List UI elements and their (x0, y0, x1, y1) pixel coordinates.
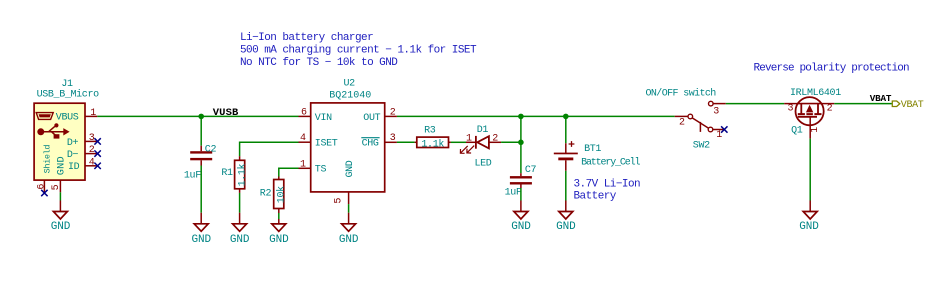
J1 pin 5 GND (51, 156, 67, 192)
LED D1 (460, 125, 501, 169)
wire R1 bottom to ground (239, 193, 241, 213)
svg-text:Battery_Cell: Battery_Cell (581, 156, 640, 168)
svg-text:LED: LED (475, 158, 492, 169)
Q1 pin 1 gate (809, 117, 811, 139)
D1 emission arrows (460, 146, 467, 153)
ground symbol under Q1 (799, 201, 819, 233)
J1 pin 4 ID (68, 157, 97, 173)
svg-text:2: 2 (679, 118, 685, 129)
svg-text:GND: GND (339, 234, 359, 246)
wire VBUS rail: J1 pin1 to U2 VIN (97, 115, 298, 117)
no-connect X on D+ (94, 138, 100, 144)
junction at LED/C7 (518, 140, 524, 146)
resistor R2 (260, 177, 288, 224)
svg-text:TS: TS (315, 165, 327, 176)
svg-text:3: 3 (89, 133, 95, 144)
svg-text:1uF: 1uF (505, 188, 522, 199)
svg-text:IRLML6401: IRLML6401 (790, 88, 841, 99)
svg-text:D+: D+ (67, 138, 79, 149)
svg-text:No NTC for TS − 10k to GND: No NTC for TS − 10k to GND (240, 57, 398, 69)
svg-text:GND: GND (345, 160, 356, 177)
svg-text:2: 2 (827, 103, 833, 114)
connector J1 USB_B_Micro body (34, 79, 99, 180)
U2 pin 3 CHG (361, 133, 397, 150)
svg-text:Battery: Battery (574, 190, 617, 202)
wire J1 pin5 to ground (59, 192, 61, 200)
svg-text:GND: GND (192, 234, 212, 246)
wire Q1 gate to ground (809, 139, 811, 201)
svg-text:BT1: BT1 (584, 144, 601, 155)
wire C2 top (200, 116, 202, 145)
wire U2 pin5 to ground (348, 204, 350, 213)
ground symbol under C2 (192, 213, 212, 246)
svg-text:Q1: Q1 (791, 125, 803, 136)
svg-text:VBUS: VBUS (56, 113, 79, 124)
wire C7 bottom to ground (520, 188, 522, 201)
svg-text:GND: GND (556, 221, 576, 233)
wire junction drop to C7 (520, 116, 522, 173)
J1 usb receptacle icon (36, 113, 53, 120)
svg-text:5: 5 (333, 198, 344, 204)
svg-text:SW2: SW2 (693, 141, 710, 152)
svg-text:BQ21040: BQ21040 (329, 90, 371, 101)
svg-text:3: 3 (788, 103, 794, 114)
svg-text:ID: ID (68, 162, 80, 173)
U2 pin 1 TS (299, 159, 327, 175)
junction at C2 (198, 114, 204, 120)
J1 pin 2 D- (67, 145, 97, 161)
svg-text:1.1k: 1.1k (421, 138, 444, 150)
switch SW2 (675, 101, 726, 151)
wire BT1 bottom to ground (565, 171, 567, 201)
svg-text:1uF: 1uF (184, 170, 201, 181)
svg-text:R3: R3 (424, 126, 436, 137)
resistor R1 (221, 156, 248, 193)
svg-text:3: 3 (713, 107, 719, 118)
ground symbol under C7 (511, 201, 531, 233)
svg-text:4: 4 (300, 133, 306, 144)
svg-text:3.7V Li−Ion: 3.7V Li−Ion (574, 179, 641, 191)
ground symbol under BT1 (556, 201, 576, 233)
svg-text:1: 1 (300, 159, 306, 170)
Q1 internal structure (797, 103, 822, 105)
Q1 pin 2 (right) (822, 103, 834, 105)
no-connect X on ID (94, 163, 100, 169)
wire CHG to R3 (397, 141, 415, 143)
svg-text:GND: GND (269, 234, 289, 246)
svg-text:Reverse polarity protection: Reverse polarity protection (754, 63, 910, 75)
svg-text:USB_B_Micro: USB_B_Micro (37, 88, 100, 100)
svg-text:GND: GND (230, 234, 250, 246)
svg-text:D−: D− (67, 150, 79, 161)
svg-text:J1: J1 (61, 79, 73, 90)
svg-text:500 mA charging current − 1.1k: 500 mA charging current − 1.1k for ISET (240, 45, 477, 57)
svg-text:VBAT: VBAT (901, 100, 924, 111)
wire SW2 pin3 to Q1 (726, 103, 784, 105)
wire BT1 top (565, 116, 567, 143)
svg-text:VBAT: VBAT (870, 93, 892, 104)
svg-text:2: 2 (492, 133, 498, 144)
svg-text:2: 2 (390, 108, 396, 119)
U2 pin 5 GND (333, 160, 356, 204)
battery BT1 (554, 141, 641, 171)
svg-text:GND: GND (799, 221, 819, 233)
svg-text:GND: GND (55, 156, 67, 175)
svg-text:C7: C7 (525, 165, 537, 176)
svg-text:1.1k: 1.1k (236, 163, 248, 186)
transistor Q1 IRLML6401 (784, 88, 841, 139)
svg-text:GND: GND (51, 221, 71, 233)
note: battery description (574, 179, 641, 203)
J1 pin 1 VBUS (56, 108, 97, 124)
svg-text:6: 6 (37, 184, 48, 190)
svg-text:U2: U2 (344, 79, 356, 90)
svg-text:4: 4 (89, 157, 95, 168)
capacitor C7 (505, 165, 537, 199)
svg-text:2: 2 (89, 145, 95, 156)
svg-text:3: 3 (390, 133, 396, 144)
svg-text:CHG: CHG (362, 139, 379, 150)
U2 pin 4 ISET (299, 133, 338, 150)
svg-text:1: 1 (466, 133, 472, 144)
wire C2 bottom to ground (200, 166, 202, 213)
note: title text block (240, 32, 477, 69)
svg-text:1: 1 (810, 127, 821, 133)
no-connect X on Shield (41, 190, 47, 196)
wire R3 to D1 (451, 141, 466, 143)
ground symbol under R2 (269, 224, 289, 246)
svg-text:OUT: OUT (363, 113, 380, 124)
svg-text:D1: D1 (477, 125, 489, 136)
svg-text:R1: R1 (221, 168, 233, 179)
svg-text:10k: 10k (275, 186, 287, 203)
svg-text:VUSB: VUSB (213, 107, 239, 119)
U2 pin 6 VIN (299, 108, 333, 124)
svg-text:ISET: ISET (315, 139, 338, 150)
wire Q1 to VBAT label (834, 103, 892, 105)
U2 pin 2 OUT (363, 108, 397, 124)
op IC U2 BQ21040 body (311, 79, 385, 192)
wire D1 to junction (501, 141, 521, 143)
wire rail: U2 OUT to SW2 pin2 (397, 115, 675, 117)
svg-text:6: 6 (301, 108, 307, 119)
resistor R3 (415, 126, 451, 151)
global label VBAT (892, 100, 923, 111)
svg-text:ON/OFF switch: ON/OFF switch (646, 88, 717, 100)
wire TS: R2 to U2 (279, 168, 299, 176)
svg-text:GND: GND (511, 221, 531, 233)
ground symbol under R1 (230, 213, 250, 246)
no-connect X on SW2 pin1 (721, 126, 727, 132)
J1 usb trident icon (37, 123, 69, 138)
svg-text:C2: C2 (205, 144, 217, 155)
ground symbol under U2 (339, 213, 359, 246)
junction at BT1 branch (563, 114, 569, 120)
wire ISET: R1 to U2 (240, 142, 299, 156)
junction at C7 branch (518, 114, 524, 120)
ground symbol under J1 (51, 201, 71, 233)
svg-text:5: 5 (51, 184, 62, 190)
J1 pin 6 Shield (37, 145, 53, 193)
svg-text:Shield: Shield (43, 145, 53, 174)
svg-text:R2: R2 (260, 189, 272, 200)
svg-text:Li−Ion battery charger: Li−Ion battery charger (240, 32, 373, 44)
Q1 pin 3 (left) (784, 103, 797, 105)
svg-text:VIN: VIN (315, 113, 332, 124)
svg-text:1: 1 (90, 108, 96, 119)
no-connect X on D- (94, 150, 100, 156)
capacitor C2 (184, 144, 217, 181)
J1 pin 3 D+ (67, 133, 97, 149)
